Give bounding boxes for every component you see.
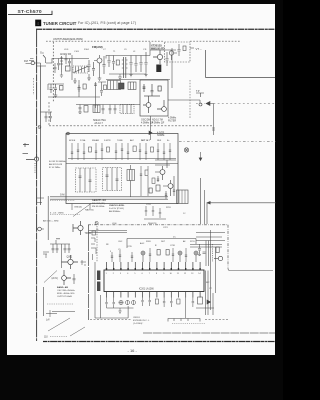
resistor network bbox=[140, 166, 155, 196]
svg-text:FM 83.0MHz: FM 83.0MHz bbox=[92, 206, 105, 208]
transistor Q203 bbox=[62, 270, 71, 285]
svg-text:AM 990kHz: AM 990kHz bbox=[109, 210, 120, 213]
CN201 text bbox=[133, 317, 150, 325]
svg-text:REF: REF bbox=[157, 140, 162, 142]
wire bias row bbox=[48, 84, 64, 90]
ground row below IC bbox=[107, 308, 134, 313]
IC bottom pin stubs bbox=[107, 292, 201, 298]
resistor RN2 bbox=[166, 250, 169, 256]
schematic left border bbox=[36, 29, 38, 341]
wire mixer column bbox=[95, 82, 97, 108]
transistor Q202 bbox=[62, 255, 79, 269]
wire to VT bbox=[190, 47, 194, 49]
transformer T101 bbox=[122, 57, 128, 78]
wire L column bbox=[43, 287, 45, 316]
svg-text:Sₐₒ: Sₐₒ bbox=[40, 51, 44, 55]
note gain block bbox=[92, 199, 125, 213]
svg-text:5: 5 bbox=[134, 273, 135, 275]
svg-text:CN201: CN201 bbox=[133, 317, 141, 319]
svg-text:S.MTR: S.MTR bbox=[104, 140, 111, 142]
CN bracket bbox=[168, 319, 200, 322]
svg-text:Q202: Q202 bbox=[67, 257, 73, 259]
svg-text:AFC: AFC bbox=[130, 139, 135, 142]
svg-text:TP201: TP201 bbox=[85, 233, 92, 235]
svg-text:FILTER: FILTER bbox=[168, 119, 176, 122]
label ST bbox=[43, 252, 49, 258]
svg-text:TUNE: TUNE bbox=[117, 140, 123, 142]
resistor R118 bbox=[183, 46, 186, 51]
junction mark bbox=[95, 221, 98, 224]
resistor R102 bbox=[60, 86, 64, 91]
svg-text:MW(LW) FE: MW(LW) FE bbox=[151, 47, 165, 50]
svg-text:P.CAL: P.CAL bbox=[80, 139, 87, 142]
FM det vertical wire bbox=[200, 178, 202, 224]
transistor Q206 bbox=[163, 180, 173, 196]
svg-text:8: 8 bbox=[156, 273, 157, 275]
svg-text:DET 10.7: DET 10.7 bbox=[141, 140, 151, 142]
IC201 bbox=[104, 270, 204, 292]
svg-text:FM(AM): FM(AM) bbox=[92, 45, 103, 49]
svg-text:- 16 -: - 16 - bbox=[128, 348, 138, 353]
stub S bbox=[81, 260, 87, 265]
lower rule line bbox=[143, 332, 275, 334]
svg-text:UNIT(TUNER)(E30-059S): UNIT(TUNER)(E30-059S) bbox=[53, 37, 83, 41]
wire antenna to unit bbox=[43, 55, 46, 63]
svg-text:S-M: S-M bbox=[60, 194, 64, 197]
unit boundary bottom-left corner bbox=[49, 102, 213, 126]
extra RF labels bbox=[64, 49, 147, 53]
schematic bottom border bbox=[43, 341, 275, 343]
svg-text:VT→: VT→ bbox=[196, 47, 203, 51]
ground bbox=[87, 74, 91, 80]
dashed vertical osc right bbox=[189, 80, 191, 118]
svg-text:6: 6 bbox=[142, 273, 143, 275]
board boundary exit wire bbox=[228, 269, 273, 271]
page bbox=[7, 4, 275, 355]
ground bbox=[98, 66, 102, 80]
svg-text:4: 4 bbox=[127, 273, 128, 275]
svg-text:1: 1 bbox=[106, 273, 107, 275]
det out wire pair bbox=[204, 190, 206, 224]
svg-text:MODE: MODE bbox=[69, 140, 76, 142]
svg-text:IC201 LA1266: IC201 LA1266 bbox=[139, 288, 154, 291]
unit boundary dashed left bbox=[52, 42, 54, 102]
electrolytic E2 bbox=[178, 251, 182, 262]
arrow down bbox=[199, 152, 202, 161]
svg-text:MOD: 400Hz 30%: MOD: 400Hz 30% bbox=[57, 293, 75, 295]
capacitor C101 bbox=[50, 84, 53, 93]
IF shield box bbox=[66, 134, 178, 204]
component stub row bbox=[68, 143, 176, 160]
label cluster right mid bbox=[146, 204, 186, 215]
svg-text:GND(S): GND(S) bbox=[74, 207, 82, 209]
leader diagonal lower bbox=[44, 271, 57, 283]
IC top pin ticks bbox=[106, 268, 201, 270]
svg-text:EXTEND IN C. L: EXTEND IN C. L bbox=[133, 320, 150, 322]
svg-text:6 - 0.5 : 1MHz: 6 - 0.5 : 1MHz bbox=[50, 212, 64, 214]
filter block row bbox=[106, 80, 170, 90]
capacitor C121 bbox=[78, 85, 81, 92]
svg-text:TUNER CIRCUIT: TUNER CIRCUIT bbox=[43, 21, 77, 26]
detector coil T103 bbox=[128, 82, 136, 90]
dotted ref line 2 bbox=[50, 214, 80, 216]
right box resistor bbox=[216, 247, 219, 253]
wire top feed bbox=[127, 239, 196, 249]
svg-text:2: 2 bbox=[113, 273, 114, 275]
ground rail bbox=[109, 74, 146, 80]
double feed wires bbox=[190, 245, 222, 248]
small box under IF box bbox=[177, 190, 189, 204]
IC top pin stubs bbox=[107, 262, 201, 270]
oscillator dashed box bbox=[165, 42, 191, 62]
right box cap bbox=[198, 244, 201, 256]
svg-text:HALF(S): HALF(S) bbox=[85, 209, 94, 212]
svg-text:AGC: AGC bbox=[140, 242, 145, 245]
quad coil bbox=[127, 165, 135, 197]
component cluster mixer bbox=[98, 82, 107, 96]
left column caps y115 bbox=[41, 112, 53, 122]
right side below IC bbox=[196, 230, 216, 315]
svg-text:AM 522-1629: AM 522-1629 bbox=[49, 163, 63, 166]
cap stubs above IC bbox=[111, 248, 187, 262]
capacitor C112 bbox=[112, 56, 115, 71]
coil L101 bbox=[60, 56, 63, 72]
crosshair mark bbox=[46, 310, 75, 317]
dotted measure line bbox=[47, 303, 74, 305]
diode D201 bbox=[206, 102, 214, 106]
resistor R111 bbox=[116, 60, 119, 65]
note block band bbox=[57, 286, 75, 298]
dotted ref line bbox=[50, 200, 75, 202]
test point TP201 bbox=[196, 93, 204, 106]
vertical TP stub bbox=[212, 104, 215, 136]
wire column x48 bbox=[47, 196, 49, 240]
svg-text:OSC 990+450kHz: OSC 990+450kHz bbox=[57, 290, 75, 292]
resistor R121 bbox=[83, 84, 86, 89]
bottom caps row bbox=[105, 298, 194, 319]
svg-text:OSC: OSC bbox=[118, 241, 123, 243]
pin labels above IC bbox=[106, 240, 186, 247]
resistor RN1 bbox=[157, 250, 160, 256]
box bottom stubs bbox=[72, 204, 90, 211]
wire RF input bbox=[46, 59, 62, 64]
svg-text:IF 10.7MHz: IF 10.7MHz bbox=[49, 167, 60, 169]
labels above IC extra bbox=[110, 241, 196, 253]
svg-text:AS 10.7: AS 10.7 bbox=[93, 122, 104, 125]
discriminator dashed box bbox=[76, 168, 97, 192]
CN201 dashed line bbox=[90, 319, 228, 321]
capacitor C105 bbox=[103, 56, 106, 74]
svg-text:AM OSC + MHz: AM OSC + MHz bbox=[43, 220, 59, 223]
electrolytic beside IC bbox=[97, 271, 100, 281]
varicap block TC101 bbox=[73, 66, 88, 73]
extra RF caps bbox=[54, 55, 71, 73]
capacitor C104 bbox=[92, 62, 95, 76]
svg-text:FM/AM: FM/AM bbox=[92, 139, 99, 142]
transistor Q201 bbox=[73, 221, 83, 235]
transistor Q205 bbox=[155, 166, 165, 180]
svg-text:LA!: LA! bbox=[46, 319, 50, 322]
right box transistor bbox=[214, 256, 223, 260]
dash stub x33 bbox=[33, 78, 35, 95]
bias cap pair A bbox=[50, 244, 70, 253]
svg-text:B: FM 76-90MHz: B: FM 76-90MHz bbox=[49, 161, 66, 163]
dotted bottom note bbox=[50, 336, 68, 338]
detector diode branch bbox=[149, 116, 152, 140]
capacitor C131 bbox=[73, 274, 76, 284]
dashed AGC line right bbox=[179, 141, 276, 143]
shield box dashed inner bbox=[96, 226, 98, 262]
electrolytic E1 bbox=[141, 251, 145, 262]
vertical drops to CN bbox=[95, 262, 128, 318]
shield can with cross bbox=[119, 83, 125, 89]
wire column x61 bbox=[56, 239, 62, 268]
small box ticks bbox=[179, 190, 185, 204]
capacitor C118 bbox=[178, 44, 181, 56]
dashed wire right TP bbox=[196, 103, 275, 105]
pin numbers top bbox=[106, 273, 201, 275]
capacitor C113 bbox=[130, 56, 133, 73]
FM antenna connector J101 bbox=[26, 59, 47, 206]
right box cap 2 bbox=[203, 252, 206, 253]
capacitor C103 bbox=[88, 60, 91, 72]
wire left column bbox=[48, 80, 100, 97]
note text 3 lines bbox=[49, 161, 66, 169]
ground bbox=[73, 78, 77, 83]
shield box left edge bbox=[88, 225, 90, 320]
transistor Q103 bbox=[153, 50, 163, 64]
bias cap pair B bbox=[64, 244, 71, 253]
bus wires bbox=[50, 197, 168, 199]
svg-text:GAIN-TP: 201: GAIN-TP: 201 bbox=[92, 199, 107, 202]
capacitor C116 bbox=[145, 52, 148, 72]
electrolytic C109 bbox=[23, 143, 39, 173]
transistor Q101 bbox=[94, 55, 102, 66]
wire VT feed bbox=[206, 50, 276, 78]
shield box top edge bbox=[89, 230, 127, 232]
border wire stubs bbox=[37, 198, 44, 203]
IF box right dense cluster bbox=[149, 160, 176, 199]
svg-text:9: 9 bbox=[163, 273, 164, 275]
wire osc out bbox=[168, 100, 200, 103]
svg-text:OUTPUT 66dB: OUTPUT 66dB bbox=[57, 296, 72, 298]
wire shield feed bbox=[89, 232, 127, 234]
unit boundary dashed top bbox=[46, 40, 241, 42]
leader diagonal bbox=[73, 204, 91, 217]
svg-text:(1+P400) !: (1+P400) ! bbox=[133, 323, 144, 325]
shield ground lug bbox=[67, 132, 70, 135]
svg-text:CHECK LEVEL: CHECK LEVEL bbox=[109, 205, 125, 207]
svg-text:13: 13 bbox=[191, 273, 193, 275]
labels above board boundary bbox=[96, 223, 169, 231]
capacitor C122 bbox=[94, 84, 97, 86]
svg-text:7: 7 bbox=[149, 273, 150, 275]
capacitor C102 bbox=[54, 84, 57, 93]
svg-text:11: 11 bbox=[177, 273, 179, 275]
svg-text:12: 12 bbox=[184, 273, 186, 275]
svg-text:S+0.5V (P.100): S+0.5V (P.100) bbox=[109, 208, 124, 210]
svg-text:4.5MHz QF: 4.5MHz QF bbox=[152, 121, 165, 124]
capacitor C115 bbox=[140, 56, 143, 73]
svg-text:T.P: T.P bbox=[196, 90, 200, 93]
caps above boundary right bbox=[144, 206, 166, 219]
oscillator box XT201 4.5MHz bbox=[140, 80, 168, 116]
svg-text:FM: FM bbox=[24, 59, 28, 63]
svg-text:4.5MHz QF: 4.5MHz QF bbox=[141, 121, 154, 124]
svg-text:REMOTE: REMOTE bbox=[148, 223, 157, 225]
header icon bbox=[35, 20, 41, 27]
electrolytic E3 bbox=[194, 251, 198, 262]
svg-text:For IC)-(201, P.5 (cont) at pa: For IC)-(201, P.5 (cont) at page 17) bbox=[78, 21, 136, 25]
leader diagonal bottom bbox=[48, 318, 70, 331]
svg-text:3: 3 bbox=[120, 273, 121, 275]
junction circle left bbox=[38, 126, 41, 129]
dotted under bracket bbox=[172, 323, 205, 325]
board boundary right dashed vertical bbox=[227, 225, 229, 269]
wire main signal row bbox=[106, 56, 150, 59]
IF ceramic filter row bbox=[76, 105, 140, 115]
svg-text:201 202 (2P): 201 202 (2P) bbox=[92, 203, 105, 205]
small parts left of IC bbox=[91, 231, 96, 260]
pin label row bbox=[69, 139, 170, 142]
wire vertical bus bbox=[150, 42, 176, 88]
capacitor C114 bbox=[135, 56, 138, 73]
ground bbox=[54, 93, 58, 97]
svg-text:4: 4 bbox=[37, 21, 40, 26]
svg-text:NORM.: NORM. bbox=[157, 134, 165, 137]
svg-text:(2mV): (2mV) bbox=[52, 278, 58, 280]
wire bbox=[62, 55, 89, 80]
mixer symbol bbox=[184, 148, 188, 152]
model label ST-CH570 bbox=[8, 9, 52, 15]
svg-text:10: 10 bbox=[170, 273, 172, 275]
capacitor C111 bbox=[108, 56, 111, 68]
leader to page edge bbox=[70, 327, 85, 336]
schematic top border bbox=[36, 28, 275, 30]
extra grounds RF bbox=[60, 72, 148, 77]
board boundary dash-dot bbox=[88, 224, 228, 226]
right box wires bbox=[196, 233, 225, 267]
svg-text:14: 14 bbox=[198, 273, 200, 275]
svg-text:BAND: AM: BAND: AM bbox=[57, 286, 68, 289]
AFC arrow wire bbox=[207, 202, 276, 225]
svg-text:R2!: R2! bbox=[206, 282, 210, 284]
ceramic disc dashed box bbox=[103, 168, 122, 191]
svg-text:2C: 2C bbox=[173, 237, 176, 239]
capacitor C117 bbox=[166, 52, 169, 66]
resistor R101 bbox=[66, 66, 71, 71]
IF can T102 bbox=[156, 65, 161, 73]
border component Q200 bbox=[37, 227, 44, 231]
transistor Q104 bbox=[169, 51, 177, 60]
